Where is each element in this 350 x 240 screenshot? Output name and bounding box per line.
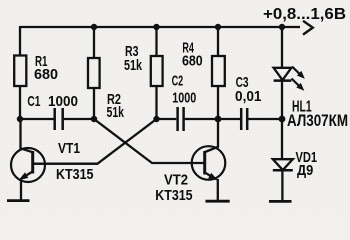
wire C1 to node B (64, 118, 94, 120)
label R4 designator (182, 39, 194, 56)
svg-text:C1: C1 (27, 93, 40, 110)
node junction dot rail-R2 (91, 24, 97, 30)
capacitor C1 (55, 108, 63, 130)
wire R3 top (155, 27, 157, 56)
wire R2 top (93, 27, 95, 58)
svg-text:680: 680 (182, 53, 203, 70)
node junction dot rail-R3 (153, 24, 159, 30)
label VT1 type KT315 (56, 166, 94, 183)
label C3 value 0,01 (235, 88, 262, 105)
label VD1 designator (296, 149, 318, 166)
wire VT1 collector (21, 119, 33, 152)
svg-text:KT315: KT315 (56, 166, 94, 183)
resistor R3 (151, 56, 163, 86)
label R1 value 680 (34, 66, 58, 83)
resistor R1 (14, 56, 26, 87)
ground VD1 (269, 200, 292, 203)
label R4 value 680 (182, 53, 203, 70)
wire top power rail (20, 26, 300, 28)
wire node E to VD1 (281, 119, 283, 159)
power arrow (303, 21, 313, 35)
wire C3 to node E (248, 118, 282, 120)
label R1 designator (35, 53, 48, 70)
label C2 designator (172, 72, 184, 89)
label R3 value 51k (124, 57, 142, 74)
svg-text:1000: 1000 (48, 93, 78, 110)
wire VT2 collector (205, 119, 218, 152)
node B dot (91, 116, 97, 122)
wire R1 bottom to node A (19, 86, 21, 119)
svg-text:Д9: Д9 (297, 162, 313, 179)
wire R4 bottom to node D (217, 86, 219, 119)
label R2 value 51k (107, 104, 125, 121)
wire C2 to node D (185, 118, 218, 120)
transistor VT1 (11, 148, 98, 182)
node E dot (279, 116, 286, 123)
transistor VT2 (152, 146, 225, 180)
resistor R2 (88, 58, 100, 88)
wire HL1 top (281, 27, 283, 68)
capacitor C2 (178, 107, 184, 131)
diode VD1 (273, 159, 293, 170)
wire VT2 emitter to ground (217, 179, 219, 201)
svg-text:1000: 1000 (172, 89, 196, 106)
node D dot (215, 116, 222, 123)
wire R3 bottom to node C (155, 86, 157, 119)
LED HL1 (274, 67, 304, 90)
wire VD1 to ground (281, 170, 283, 201)
svg-text:51k: 51k (107, 104, 125, 121)
wire node C to VT1 base (diagonal) (34, 119, 157, 164)
wire node A to C1 (20, 118, 54, 120)
svg-text:0,01: 0,01 (235, 88, 262, 105)
svg-text:C2: C2 (172, 72, 184, 89)
label VT2 designator (164, 172, 188, 189)
label VT1 designator (58, 140, 80, 157)
wire R4 top (217, 27, 219, 56)
label C3 designator (236, 74, 249, 91)
svg-text:+0,8...1,6В: +0,8...1,6В (263, 6, 346, 23)
svg-text:VT1: VT1 (58, 140, 80, 157)
ground VT2 (206, 200, 230, 203)
wire node C to C2 (157, 118, 177, 120)
label VT2 type KT315 (155, 187, 192, 204)
svg-text:51k: 51k (124, 57, 142, 74)
svg-text:АЛ307КМ: АЛ307КМ (287, 112, 348, 130)
wire R2 bottom to node B (93, 88, 95, 119)
label C2 value 1000 (172, 89, 196, 106)
svg-text:680: 680 (34, 66, 58, 83)
label R3 designator (125, 43, 139, 60)
ground VT1 (7, 199, 30, 202)
wire node D to C3 (218, 118, 240, 120)
label power +0,8...1,6V (263, 6, 346, 23)
node C dot (153, 116, 159, 122)
capacitor C3 (241, 108, 247, 130)
wire HL1 to node E (281, 81, 283, 119)
label HL1 type AL307KM (287, 112, 348, 130)
label C1 value 1000 (48, 93, 78, 110)
node junction dot rail-HL1 (279, 24, 285, 30)
wire node B to VT2 base (diagonal) (94, 119, 204, 163)
svg-text:KT315: KT315 (155, 187, 192, 204)
label R2 designator (107, 91, 121, 108)
label VD1 type D9 (297, 162, 313, 179)
node junction dot rail-R4 (215, 24, 221, 30)
resistor R4 (212, 56, 225, 86)
label HL1 designator (292, 99, 312, 116)
wire left drop to R1 (19, 26, 21, 56)
label C1 designator (27, 93, 40, 110)
wire VT1 emitter to ground (20, 179, 22, 201)
node A dot (17, 116, 23, 122)
